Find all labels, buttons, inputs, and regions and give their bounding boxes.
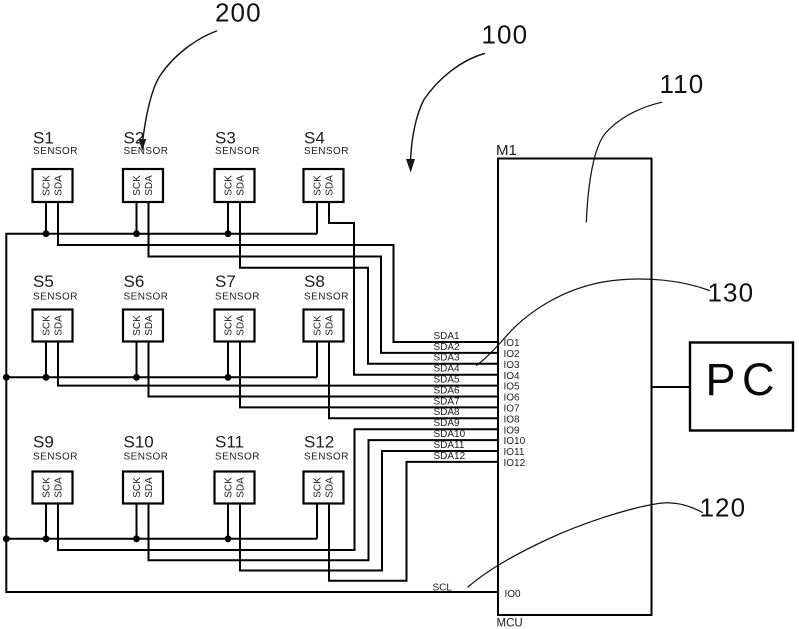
sensor S5 (33, 272, 78, 342)
svg-text:MCU: MCU (497, 618, 523, 629)
svg-text:IO12: IO12 (504, 458, 526, 469)
svg-text:SENSOR: SENSOR (124, 292, 169, 303)
svg-text:SENSOR: SENSOR (33, 146, 78, 157)
svg-text:IO5: IO5 (504, 382, 521, 393)
junction on SCL bus at x=136,y=539 (133, 535, 140, 542)
wire SCK pin of S10 to SCL bus (136, 504, 138, 539)
svg-text:SDA1: SDA1 (434, 331, 461, 342)
sensor S2 (123, 129, 168, 203)
svg-text:S7: S7 (215, 272, 236, 291)
svg-text:SDA: SDA (325, 315, 336, 336)
svg-text:SDA: SDA (325, 477, 336, 498)
leader line from 110 into MCU (586, 102, 661, 222)
sensor S12 (304, 433, 349, 504)
svg-text:110: 110 (660, 69, 705, 99)
svg-text:SCK: SCK (313, 175, 324, 196)
wire SCL trunk: row-1 bus, left vertical bus, bottom run to MCU pin IO0 (6, 234, 498, 592)
svg-text:SDA: SDA (236, 175, 247, 196)
wire SDA of S10 to MCU pin IO10 (net SDA10) (149, 440, 499, 560)
wire SDA of S3 to MCU pin IO3 (net SDA3) (240, 202, 498, 364)
leader line from 130 to SDA4 wire (477, 279, 710, 365)
wire SDA of S12 to MCU pin IO12 (net SDA12) (329, 462, 498, 581)
svg-text:SCK: SCK (42, 175, 53, 196)
junction on SCL bus at x=46,y=377 (43, 374, 50, 381)
svg-text:SENSOR: SENSOR (33, 292, 78, 303)
wire SDA of S8 to MCU pin IO8 (net SDA8) (329, 342, 498, 419)
svg-text:IO10: IO10 (504, 436, 526, 447)
svg-text:PC: PC (706, 354, 782, 405)
svg-text:SDA11: SDA11 (434, 440, 465, 451)
wire SDA of S2 to MCU pin IO2 (net SDA2) (149, 202, 499, 353)
sensor S7 (215, 272, 260, 342)
wire SCK pin of S1 to SCL bus (45, 202, 47, 234)
svg-text:SCK: SCK (224, 315, 235, 336)
sensor S1 (33, 129, 78, 203)
svg-text:SDA: SDA (54, 477, 65, 498)
svg-text:SDA6: SDA6 (434, 385, 461, 396)
svg-text:SENSOR: SENSOR (33, 452, 78, 463)
svg-text:SDA: SDA (236, 477, 247, 498)
svg-text:SDA8: SDA8 (434, 407, 461, 418)
svg-text:S2: S2 (124, 129, 145, 148)
wire SDA of S4 to MCU pin IO4 (net SDA4) (329, 202, 498, 375)
wire SDA of S7 to MCU pin IO7 (net SDA7) (240, 342, 498, 408)
svg-text:SENSOR: SENSOR (304, 292, 349, 303)
wire SCL row-2 branch bus (6, 376, 317, 378)
svg-text:S8: S8 (304, 272, 325, 291)
svg-text:SCL: SCL (433, 583, 453, 594)
sensor S8 (304, 272, 349, 342)
wire SCL row-3 branch bus (6, 538, 317, 540)
svg-text:SDA: SDA (54, 315, 65, 336)
sensor S11 (215, 433, 260, 504)
svg-text:SDA: SDA (144, 315, 155, 336)
sensor S10 (123, 433, 168, 504)
svg-text:IO9: IO9 (504, 425, 521, 436)
svg-text:S5: S5 (33, 272, 54, 291)
svg-text:SDA: SDA (325, 175, 336, 196)
wire SCK pin of S2 to SCL bus (136, 202, 138, 234)
svg-text:SENSOR: SENSOR (304, 146, 349, 157)
junction on SCL bus at x=46,y=234 (43, 230, 50, 237)
svg-text:M1: M1 (496, 142, 517, 159)
wire SCK pin of S7 to SCL bus (227, 342, 229, 378)
svg-text:120: 120 (700, 493, 747, 523)
junction on SCL bus at x=136,y=377 (133, 374, 140, 381)
svg-text:SCK: SCK (224, 477, 235, 498)
svg-text:SCK: SCK (132, 315, 143, 336)
svg-text:SCK: SCK (313, 477, 324, 498)
wire SCK pin of S9 to SCL bus (45, 504, 47, 539)
sensor S3 (215, 129, 260, 203)
svg-text:SDA9: SDA9 (434, 418, 461, 429)
svg-text:IO7: IO7 (504, 404, 521, 415)
svg-text:SENSOR: SENSOR (304, 452, 349, 463)
svg-text:200: 200 (215, 0, 262, 28)
svg-text:SDA7: SDA7 (434, 396, 461, 407)
svg-text:IO1: IO1 (504, 338, 521, 349)
wire SDA of S9 to MCU pin IO9 (net SDA9) (58, 429, 498, 550)
MCU M1 (496, 142, 652, 629)
svg-text:S9: S9 (33, 433, 54, 452)
wire SCK pin of S3 to SCL bus (227, 202, 229, 234)
svg-text:SENSOR: SENSOR (124, 452, 169, 463)
svg-text:SDA: SDA (54, 175, 65, 196)
wire SDA of S11 to MCU pin IO11 (net SDA11) (240, 451, 498, 571)
leader arrow from 100 (406, 54, 485, 173)
svg-text:SENSOR: SENSOR (215, 452, 260, 463)
sensor S9 (33, 433, 78, 504)
junction on SCL bus at x=228,y=234 (225, 230, 232, 237)
svg-text:SCK: SCK (42, 315, 53, 336)
svg-text:IO11: IO11 (504, 447, 525, 458)
wire SCK pin of S6 to SCL bus (136, 342, 138, 378)
wire SCK pin of S11 to SCL bus (227, 504, 229, 539)
svg-text:IO4: IO4 (504, 371, 521, 382)
svg-text:SDA4: SDA4 (434, 364, 461, 375)
svg-text:SENSOR: SENSOR (215, 146, 260, 157)
svg-text:SDA2: SDA2 (434, 342, 461, 353)
junction on SCL bus at x=228,y=539 (225, 535, 232, 542)
wire SCK pin of S8 to SCL bus (316, 342, 318, 378)
svg-text:IO8: IO8 (504, 414, 521, 425)
svg-text:SDA3: SDA3 (434, 353, 461, 364)
svg-text:S11: S11 (215, 433, 244, 452)
svg-text:SENSOR: SENSOR (215, 292, 260, 303)
PC box (690, 343, 793, 431)
svg-text:SDA: SDA (144, 175, 155, 196)
svg-text:S4: S4 (304, 129, 325, 148)
wire SCK pin of S4 to SCL bus (316, 202, 318, 234)
svg-text:IO3: IO3 (504, 360, 521, 371)
svg-text:IO6: IO6 (504, 393, 521, 404)
svg-text:SDA5: SDA5 (434, 375, 461, 386)
svg-text:S3: S3 (215, 129, 236, 148)
leader line from 120 to SCL wire (468, 503, 703, 587)
svg-text:S1: S1 (33, 129, 54, 148)
svg-text:SENSOR: SENSOR (124, 146, 169, 157)
junction on SCL bus at x=6,y=377 (3, 374, 10, 381)
svg-text:130: 130 (708, 278, 755, 308)
wire SCK pin of S12 to SCL bus (316, 504, 318, 539)
svg-text:SDA10: SDA10 (434, 429, 466, 440)
junction on SCL bus at x=6,y=539 (3, 535, 10, 542)
leader arrow from 200 to sensor S2 (139, 31, 217, 151)
svg-text:S10: S10 (124, 433, 154, 452)
svg-text:SCK: SCK (313, 315, 324, 336)
svg-text:SDA12: SDA12 (434, 451, 466, 462)
sensor S4 (304, 129, 349, 203)
junction on SCL bus at x=46,y=539 (43, 535, 50, 542)
wire SDA of S5 to MCU pin IO5 (net SDA5) (58, 342, 498, 386)
sensor S6 (123, 272, 168, 342)
junction on SCL bus at x=136,y=234 (133, 230, 140, 237)
wire MCU to PC (652, 386, 691, 388)
svg-text:SCK: SCK (132, 175, 143, 196)
svg-text:100: 100 (482, 20, 529, 50)
svg-text:SCK: SCK (224, 175, 235, 196)
wire SCK pin of S5 to SCL bus (45, 342, 47, 378)
svg-text:SDA: SDA (144, 477, 155, 498)
svg-text:SDA: SDA (236, 315, 247, 336)
svg-text:S12: S12 (304, 433, 334, 452)
svg-text:IO0: IO0 (505, 589, 522, 600)
svg-text:IO2: IO2 (504, 349, 521, 360)
wire SDA of S1 to MCU pin IO1 (net SDA1) (58, 202, 498, 342)
junction on SCL bus at x=228,y=377 (225, 374, 232, 381)
wire SDA of S6 to MCU pin IO6 (net SDA6) (149, 342, 499, 397)
svg-text:SCK: SCK (42, 477, 53, 498)
svg-text:S6: S6 (124, 272, 145, 291)
svg-text:SCK: SCK (132, 477, 143, 498)
